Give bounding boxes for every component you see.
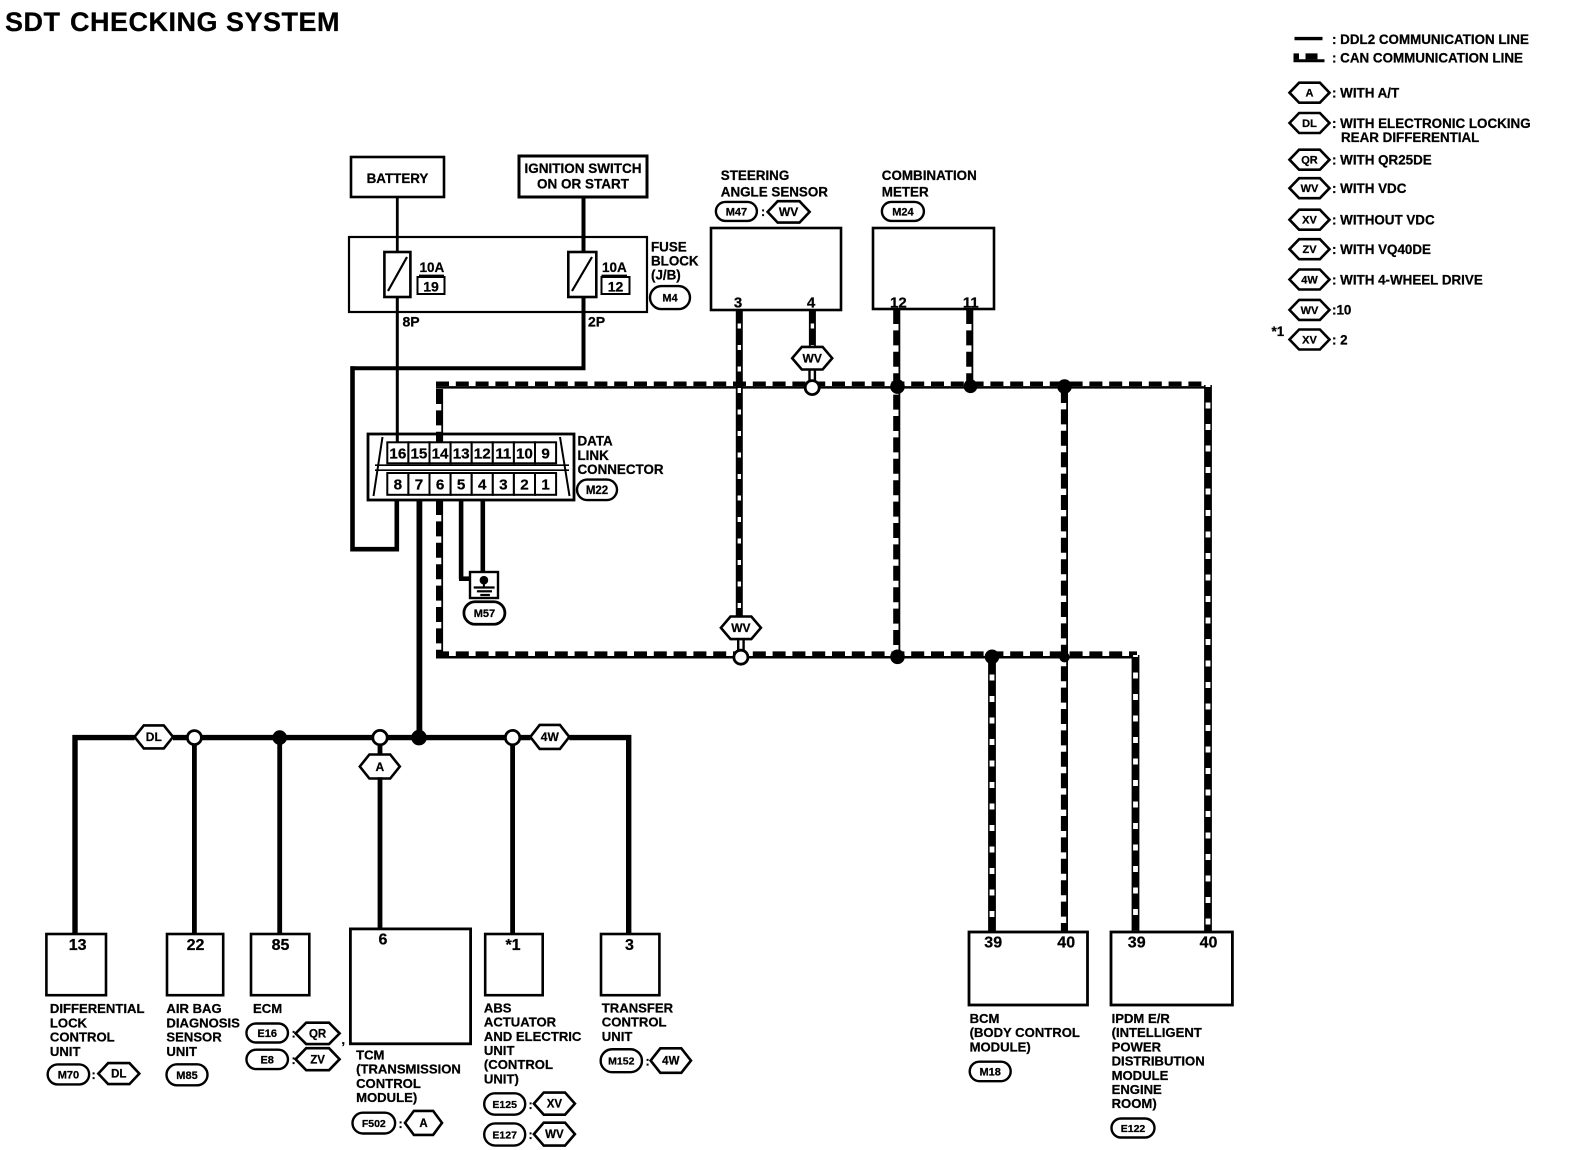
ignition switch box [519,156,647,197]
svg-text:(J/B): (J/B) [651,267,681,282]
svg-text:XV: XV [547,1099,563,1111]
svg-text:DL: DL [111,1069,126,1081]
svg-text:SENSOR: SENSOR [166,1030,222,1045]
svg-text:WV: WV [731,621,750,635]
svg-text:: WITH 4-WHEEL DRIVE: : WITH 4-WHEEL DRIVE [1332,272,1483,287]
junction dot pin12 / upper CAN bus [890,379,905,394]
wire battery feed 8P to DLC pin 16 [396,297,399,443]
svg-text:CONTROL: CONTROL [356,1076,421,1091]
svg-text:13: 13 [69,937,87,954]
wire DLC pin 5 to ground [459,500,470,579]
transfer 4W hexagon [651,1048,691,1073]
svg-text:11: 11 [963,295,979,312]
svg-text::10: :10 [1332,303,1351,318]
svg-text:85: 85 [272,937,290,954]
svg-text:DIAGNOSIS: DIAGNOSIS [166,1015,240,1030]
wire WV hexagon to lower bus junction [737,639,739,652]
junction dot BCM40 / upper CAN bus [1057,379,1072,394]
svg-text:(TRANSMISSION: (TRANSMISSION [356,1062,461,1077]
combination meter box [873,228,994,312]
svg-text:16: 16 [389,446,406,463]
svg-text:LINK: LINK [578,448,610,463]
open junction steering pin4 / upper CAN bus [805,381,819,395]
svg-text:6: 6 [379,932,388,949]
svg-text:M4: M4 [662,293,678,305]
BCM box [969,932,1088,1005]
svg-text:BCM: BCM [970,1011,1000,1026]
CAN bus corner to IPDM pin 39 [1132,655,1140,932]
CAN wire combination meter pin 12 to lower bus [898,309,900,652]
ECM box [251,934,309,995]
ABS connector E127 oval [484,1123,525,1145]
connector M22 oval [577,480,617,501]
DDL2 bus wire left segment [74,735,76,740]
svg-text:DATA: DATA [578,434,614,449]
svg-text:3: 3 [499,477,507,494]
svg-text::: : [529,1128,533,1142]
svg-text:METER: METER [882,184,929,199]
svg-text:8P: 8P [403,314,420,330]
svg-text:WV: WV [545,1129,564,1141]
svg-text:ROOM): ROOM) [1112,1096,1157,1111]
svg-text:(CONTROL: (CONTROL [484,1057,553,1072]
svg-text:STEERING: STEERING [721,168,789,183]
svg-text:M70: M70 [58,1069,79,1081]
CAN wire steering pin 4 down to WV [809,310,816,346]
svg-text:E16: E16 [257,1028,277,1040]
ECM QR hexagon [296,1023,340,1044]
svg-text:39: 39 [984,935,1002,952]
svg-text:A: A [1306,88,1314,100]
svg-text:UNIT): UNIT) [484,1071,519,1086]
differential lock DL hexagon [98,1063,139,1084]
wire bus to ABS unit [510,738,515,934]
svg-text:6: 6 [436,477,444,494]
svg-text:40: 40 [1057,935,1075,952]
svg-text:: CAN COMMUNICATION LINE: : CAN COMMUNICATION LINE [1332,50,1523,65]
wire ignition switch to fuse block [582,197,586,252]
wire battery to fuse block [396,197,399,252]
svg-text::: : [399,1117,403,1131]
wire bus to ECM [277,738,282,934]
CAN bus upper horizontal line [436,386,1208,389]
BCM connector M18 oval [970,1062,1011,1082]
svg-text:11: 11 [495,446,512,463]
CAN wire steering pin 3 down to WV [736,310,743,618]
svg-text:8: 8 [394,477,402,494]
svg-text:UNIT: UNIT [484,1043,515,1058]
junction dot pin11 / upper CAN bus [964,379,978,393]
svg-text:*1: *1 [1272,324,1285,339]
DL hexagon on bus [135,725,174,748]
svg-text:: WITH QR25DE: : WITH QR25DE [1332,153,1432,168]
legend DDL2 communication line sample [1295,32,1529,47]
CAN bus corner to IPDM pin 40 [1204,385,1212,932]
IPDM box [1111,932,1232,1005]
svg-text:FUSE: FUSE [651,239,687,254]
junction dot BCM39 / lower CAN bus [985,650,1000,665]
svg-text:MODULE: MODULE [1112,1068,1169,1083]
fuse 19 value label [418,260,445,295]
svg-text:M152: M152 [608,1055,634,1067]
svg-text:CHECKING SYSTEM: CHECKING SYSTEM [70,7,340,37]
svg-text:MODULE): MODULE) [356,1090,417,1105]
svg-text:M24: M24 [892,206,914,218]
svg-text:12: 12 [890,295,907,312]
svg-text:12: 12 [474,446,491,463]
svg-text:REAR DIFFERENTIAL: REAR DIFFERENTIAL [1341,130,1479,145]
svg-text:15: 15 [410,446,427,463]
svg-text:14: 14 [432,446,449,463]
CAN wire DLC pin 6 to lower bus [441,500,443,656]
svg-text:ZV: ZV [1302,244,1317,256]
svg-text:MODULE): MODULE) [970,1039,1031,1054]
CAN bus lower horizontal line [436,656,1137,659]
ground connector M57 oval [464,602,505,625]
combination meter connector M24 oval [882,202,924,221]
svg-text:DIFFERENTIAL: DIFFERENTIAL [50,1001,145,1016]
svg-text:IGNITION SWITCH: IGNITION SWITCH [525,161,642,176]
ECM connector E8 oval [246,1050,288,1069]
svg-text::: : [92,1068,96,1082]
wire DLC pin 4 to ground [480,500,485,574]
title: SDT CHECKING SYSTEM [5,7,340,37]
svg-text:M22: M22 [586,485,608,497]
svg-text:ECM: ECM [253,1001,282,1016]
svg-text:19: 19 [423,278,439,294]
svg-text:E8: E8 [260,1054,273,1066]
svg-text:UNIT: UNIT [50,1044,81,1059]
ABS actuator box [485,934,543,995]
junction dot pin7 / bus [411,730,427,746]
svg-text:4W: 4W [1301,274,1318,286]
svg-text:A: A [419,1118,427,1130]
TCM A hexagon label [405,1111,442,1135]
DDL2 bus wire middle segment [173,735,531,740]
legend symbol WV : 10 [1290,300,1352,320]
svg-text:2: 2 [520,477,528,494]
svg-text:POWER: POWER [1112,1039,1162,1054]
svg-text:: 2: : 2 [1332,332,1348,347]
ECM connector E16 oval [246,1024,288,1043]
svg-text:M57: M57 [474,608,495,620]
steering angle sensor WV hexagon [768,201,810,222]
TCM connector F502 oval [353,1113,396,1134]
svg-text:M85: M85 [176,1070,197,1082]
TCM box [350,929,470,1044]
svg-text:E125: E125 [492,1099,517,1111]
open junction ABS / bus [505,730,519,744]
wire ignition feed left vertical [350,366,355,551]
differential lock control unit box [46,934,106,995]
svg-text:40: 40 [1200,935,1218,952]
svg-text:BLOCK: BLOCK [651,253,699,268]
svg-text:ACTUATOR: ACTUATOR [484,1015,557,1030]
legend symbol WV : WITH VDC [1290,178,1407,198]
open junction air bag / bus [187,731,201,745]
svg-text:WV: WV [1301,305,1319,317]
fuse 10A 19 [384,252,410,297]
wire ignition feed horizontal [351,366,586,370]
svg-text:WV: WV [779,205,798,219]
ABS WV hexagon [534,1123,575,1146]
IPDM connector E122 oval [1112,1119,1155,1138]
svg-text:AIR BAG: AIR BAG [166,1001,221,1016]
battery box [351,157,444,197]
air bag diagnosis sensor unit box [167,934,223,995]
svg-text:CONNECTOR: CONNECTOR [578,462,664,477]
legend CAN communication line sample [1294,50,1523,65]
svg-text:22: 22 [187,937,205,954]
svg-text:AND ELECTRIC: AND ELECTRIC [484,1029,582,1044]
open junction steering pin3 / lower CAN bus [734,650,748,664]
svg-text:: DDL2 COMMUNICATION LINE: : DDL2 COMMUNICATION LINE [1332,32,1529,47]
ground symbol [470,572,498,598]
svg-text:10: 10 [516,446,533,463]
svg-text:ENGINE: ENGINE [1112,1082,1162,1097]
svg-text:3: 3 [625,937,634,954]
wire bus junction to A hexagon [378,744,383,756]
svg-text:QR: QR [1301,155,1318,167]
svg-text:M18: M18 [979,1066,1000,1078]
svg-text:ABS: ABS [484,1000,512,1015]
CAN wire to BCM pin 39 [988,657,996,932]
svg-text::: : [646,1055,650,1069]
svg-text:XV: XV [1302,215,1317,227]
data link connector M22 [368,434,574,500]
svg-text:M47: M47 [726,206,747,218]
junction dot pin12 / lower CAN bus [890,650,905,665]
svg-text:WV: WV [803,352,822,366]
svg-text:IPDM E/R: IPDM E/R [1112,1011,1171,1026]
svg-text:: WITH ELECTRONIC LOCKING: : WITH ELECTRONIC LOCKING [1332,116,1531,131]
svg-text:4W: 4W [662,1056,679,1068]
svg-text:CONTROL: CONTROL [50,1030,115,1045]
svg-text:3: 3 [734,295,742,312]
svg-text:DL: DL [146,730,162,744]
svg-text:: WITHOUT VDC: : WITHOUT VDC [1332,213,1435,228]
svg-text:UNIT: UNIT [166,1044,197,1059]
legend symbol 4W : WITH 4-WHEEL DRIVE [1290,270,1483,290]
svg-text:LOCK: LOCK [50,1015,88,1030]
svg-text:7: 7 [415,477,423,494]
svg-text:A: A [375,760,384,774]
svg-text:: WITH VQ40DE: : WITH VQ40DE [1332,242,1431,257]
svg-text:2P: 2P [588,314,605,330]
svg-text:,: , [342,1033,345,1047]
steering pin 4 WV hexagon [792,347,832,370]
svg-text:1: 1 [541,477,550,494]
legend symbol A : WITH A/T [1290,83,1401,103]
svg-text:4: 4 [807,295,816,312]
steering angle sensor box [711,228,841,312]
transfer connector M152 oval [601,1049,642,1072]
svg-text:*1: *1 [505,937,520,954]
ECM ZV hexagon [296,1048,340,1070]
svg-text:10A: 10A [602,260,627,275]
svg-text::: : [529,1098,533,1112]
open junction TCM / bus [373,730,387,744]
TCM A hexagon [360,755,400,779]
svg-text:QR: QR [309,1029,327,1041]
fuse block box [349,237,647,312]
svg-text:ANGLE SENSOR: ANGLE SENSOR [721,184,828,199]
svg-text:9: 9 [541,446,549,463]
ABS XV hexagon [534,1093,575,1115]
legend symbol DL : WITH ELECTRONIC LOCKING [1290,113,1531,145]
svg-text:SDT: SDT [5,7,61,37]
ABS connector E125 oval [484,1093,525,1114]
svg-text:CONTROL: CONTROL [602,1015,667,1030]
connector M4 oval [650,286,690,309]
svg-text:12: 12 [608,278,624,294]
svg-text:39: 39 [1128,935,1146,952]
wire ignition feed bottom horizontal [351,547,398,552]
air bag connector M85 oval [167,1064,208,1085]
CAN wire to BCM pin 40 [1066,388,1068,932]
fuse 12 value label [602,260,630,295]
fuse 10A 12 [568,252,596,297]
legend symbol QR : WITH QR25DE [1290,150,1432,170]
steering pin 3 WV hexagon [721,617,761,640]
legend symbol XV : WITHOUT VDC [1290,210,1435,230]
svg-text::: : [761,205,765,219]
wire A hexagon to TCM pin 6 [378,777,383,930]
svg-text:BATTERY: BATTERY [367,171,429,186]
CAN wire combination meter pin 11 to upper bus [971,309,973,381]
legend symbol XV : 2 [1290,330,1348,350]
wire bus to air bag unit [192,738,197,934]
steering angle sensor connector M47 oval [716,202,757,221]
svg-text:ZV: ZV [310,1054,325,1066]
CAN wire upper bus to DLC pin 14 [441,389,443,442]
svg-text:DISTRIBUTION: DISTRIBUTION [1112,1054,1205,1069]
svg-text:4: 4 [478,477,487,494]
svg-text:WV: WV [1301,183,1319,195]
svg-text:4W: 4W [541,730,560,744]
wire ignition feed 2P down [582,297,586,370]
svg-text:DL: DL [1302,118,1317,130]
svg-text:(BODY CONTROL: (BODY CONTROL [970,1025,1080,1040]
wire DLC pin 7 to bus [416,500,422,738]
differential lock connector M70 oval [48,1064,90,1084]
svg-text:TRANSFER: TRANSFER [602,1000,674,1015]
wire WV hexagon to upper bus junction [808,370,810,383]
svg-text:: WITH VDC: : WITH VDC [1332,181,1407,196]
svg-text:5: 5 [457,477,466,494]
svg-text:F502: F502 [362,1118,386,1130]
svg-text:10A: 10A [420,260,445,275]
wire ignition feed up to DLC pin 8 [394,499,399,552]
svg-text:: WITH A/T: : WITH A/T [1332,86,1400,101]
crossing blob BCM40 / lower CAN bus [1059,652,1069,662]
svg-text:XV: XV [1302,334,1317,346]
svg-text:UNIT: UNIT [602,1029,633,1044]
DDL2 bus wire right segment [569,738,628,934]
svg-text:13: 13 [453,446,470,463]
svg-text:COMBINATION: COMBINATION [882,168,977,183]
transfer control unit box [601,934,659,995]
junction dot ECM / bus [272,730,287,745]
svg-text:ON OR START: ON OR START [537,177,630,192]
svg-text:TCM: TCM [356,1047,384,1062]
svg-text:E127: E127 [492,1129,517,1141]
svg-text:E122: E122 [1121,1123,1146,1135]
legend symbol ZV : WITH VQ40DE [1290,239,1432,259]
4W hexagon on bus [530,725,569,749]
svg-text:(INTELLIGENT: (INTELLIGENT [1112,1025,1202,1040]
